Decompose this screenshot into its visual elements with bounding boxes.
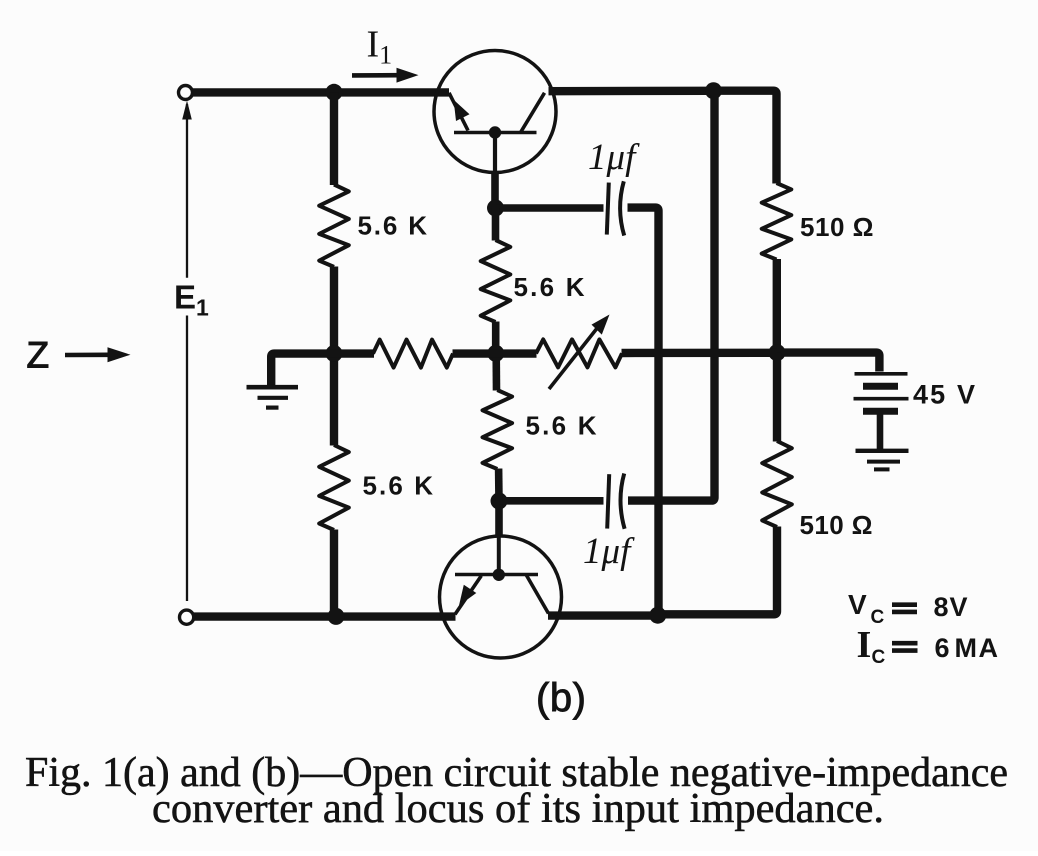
wire bottom cap left segment [499, 497, 604, 505]
resistor R4 5.6K mid-bottom upper lead [492, 353, 500, 390]
ground (input) bar 3 [266, 406, 279, 410]
resistor R5 510ohm upper [762, 183, 792, 260]
wire top cap right segment with corner into riser [628, 208, 659, 612]
resistor R2 5.6K left-bottom [319, 445, 349, 530]
svg-text:5.6 K: 5.6 K [363, 471, 435, 501]
svg-text:510 Ω: 510 Ω [800, 212, 875, 242]
ground (battery) bar 3 [874, 467, 890, 471]
wire middle between resistors [453, 349, 537, 357]
node mid-column upper junction [487, 200, 504, 217]
resistor R7 (horizontal, unlabeled) [373, 340, 453, 368]
arrow I1 [352, 73, 399, 78]
wire top right to 510 branch corner [717, 91, 777, 184]
wire bottom cap right segment with corner into riser up [628, 95, 715, 501]
battery BT1 plate long 2 [854, 397, 909, 401]
svg-text:I: I [857, 624, 872, 666]
svg-text:6: 6 [935, 633, 950, 663]
svg-text:45 V: 45 V [913, 380, 977, 410]
node collector/riser junction [705, 82, 722, 99]
terminal top-left [179, 86, 193, 100]
node top-left junction [326, 84, 343, 101]
svg-text:C: C [871, 607, 885, 628]
resistor R4 5.6K mid-bottom [483, 390, 513, 469]
resistor R3 lower lead [492, 322, 500, 354]
transistor Q1 base bar [454, 131, 537, 135]
transistor Q1 circle [434, 51, 556, 173]
battery BT1 plate thick 2 [863, 408, 898, 415]
wire 510 lower to bottom corner [662, 527, 777, 615]
node middle crossing left column [326, 345, 343, 362]
measure line E1 lower segment [186, 316, 188, 602]
ground (input) bar 1 [247, 385, 299, 390]
svg-text:C: C [872, 647, 886, 668]
capacitor C2 left plate [607, 474, 609, 528]
node middle crossing mid-column [487, 345, 504, 362]
measure line E1 arrowhead up [182, 101, 192, 120]
transistor Q2 emitter diagonal [455, 576, 481, 615]
svg-text:8V: 8V [934, 592, 969, 622]
resistor R8 variable (horizontal) [536, 339, 622, 367]
wire Q2 base lead thin inside [497, 535, 501, 571]
resistor R8 variable arrowhead [592, 315, 610, 335]
transistor Q1 base lead thin [493, 137, 497, 174]
node mid-column lower junction [491, 493, 508, 510]
wire middle to battery with corner [780, 353, 879, 372]
measure line E1 upper segment with arrow [186, 104, 188, 278]
node middle-right junction [769, 344, 786, 361]
battery BT1 plate long top [855, 372, 908, 376]
resistor R1 5.6K left-top [319, 185, 349, 267]
resistor R3 5.6K mid-top lead [492, 208, 500, 241]
svg-text:1μf: 1μf [588, 137, 640, 178]
transistor Q2 emitter arrowhead [459, 585, 476, 606]
wire bottom from terminal to Q2 [194, 612, 456, 620]
transistor Q2 base dot [493, 569, 505, 581]
capacitor C1 right plate (curved) [620, 181, 624, 235]
wire middle right of variable resistor [622, 349, 778, 358]
wire middle-left with ground stub corner [271, 354, 374, 387]
svg-text:converter and locus of its inp: converter and locus of its input impedan… [152, 786, 884, 832]
svg-text:Z: Z [27, 335, 50, 376]
svg-text:5.6 K: 5.6 K [526, 411, 598, 441]
battery BT1 plate thick 1 [863, 383, 898, 390]
ground (input) bar 2 [258, 396, 289, 400]
transistor Q1 emitter diagonal [449, 93, 468, 131]
wire top collector run [549, 87, 710, 96]
wire bottom from Q2 to riser node [548, 611, 654, 619]
wire top cap left segment [496, 204, 604, 212]
svg-text:V: V [848, 589, 867, 620]
wire left column middle [330, 267, 338, 446]
transistor Q1 collector diagonal [521, 93, 545, 133]
node bottom riser junction [649, 607, 666, 624]
resistor R6 510ohm lower lead from node [773, 353, 781, 442]
wire Q2 base lead (thick outside circle) [495, 501, 503, 537]
resistor R4 lower lead [495, 469, 503, 502]
transistor Q1 base dot [489, 126, 501, 138]
svg-text:5.6 K: 5.6 K [358, 211, 429, 241]
svg-text:5.6 K: 5.6 K [514, 272, 586, 302]
ground (battery) bar 1 [856, 449, 909, 453]
resistor R6 510ohm lower [762, 441, 792, 527]
resistor R8 variable arrow shaft [549, 325, 600, 390]
transistor Q1 emitter arrowhead [454, 100, 470, 121]
terminal bottom-left [180, 610, 194, 624]
transistor Q2 base bar [455, 573, 538, 577]
wire 510 upper lower lead [773, 259, 781, 353]
transistor Q2 collector diagonal [526, 575, 549, 614]
svg-text:1μf: 1μf [583, 531, 635, 572]
wire left column upper lead [330, 92, 338, 185]
svg-text:(b): (b) [536, 676, 586, 720]
svg-text:510 Ω: 510 Ω [800, 510, 874, 540]
wire left column lower lead [330, 530, 338, 617]
resistor R3 5.6K mid-top [481, 240, 511, 322]
node bottom-left junction [328, 608, 345, 625]
wire Q1 base lead to node [491, 172, 499, 205]
capacitor C1 left plate [607, 183, 609, 235]
wire top from terminal to Q1 [193, 88, 449, 96]
capacitor C2 right plate (curved) [620, 474, 624, 529]
arrow Z [65, 352, 109, 357]
transistor Q2 circle [440, 536, 562, 658]
battery BT1 bottom stub [877, 414, 884, 450]
ground (battery) bar 2 [867, 460, 900, 464]
svg-text:MA: MA [955, 633, 1000, 663]
